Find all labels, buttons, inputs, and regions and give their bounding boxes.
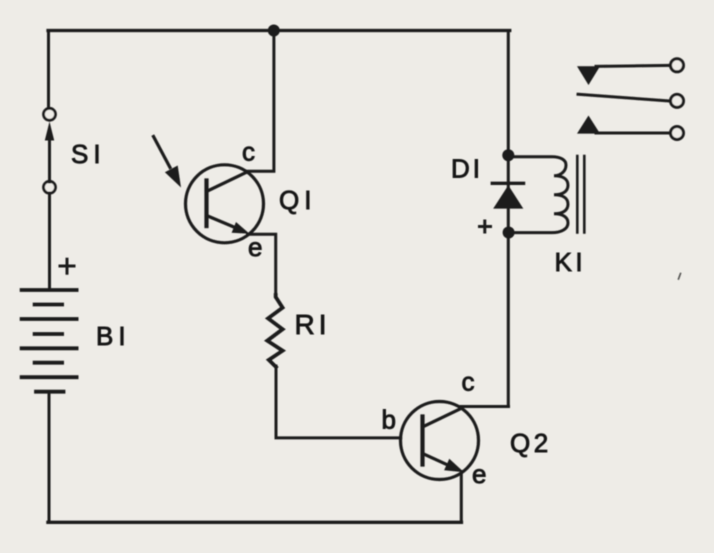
wire Q2 emitter down to ground rail xyxy=(460,472,463,523)
wire right vertical (top rail down to Q2 collector) xyxy=(507,31,510,407)
switch S1 xyxy=(44,108,56,193)
svg-text:KI: KI xyxy=(555,247,587,277)
stray scan mark xyxy=(679,274,681,280)
svg-text:c: c xyxy=(462,367,475,397)
wire bottom horizontal rail xyxy=(48,521,461,524)
svg-text:SI: SI xyxy=(71,139,106,169)
node D1/coil bottom junction xyxy=(503,227,515,239)
resistor R1 xyxy=(267,295,282,367)
svg-text:c: c xyxy=(242,137,255,167)
wire Q2 collector to relay branch xyxy=(461,405,509,408)
svg-text:QI: QI xyxy=(279,185,316,215)
svg-text:RI: RI xyxy=(295,309,331,340)
plus label (D1 anode) xyxy=(480,221,491,232)
node D1/coil top junction xyxy=(502,149,514,161)
node junction top rail xyxy=(268,25,280,37)
transistor Q1 (photo) xyxy=(186,165,264,243)
relay contact armature (middle) xyxy=(578,94,684,107)
diode D1 xyxy=(492,183,523,208)
relay contact NO (bottom) xyxy=(577,116,684,140)
wire top horizontal rail xyxy=(48,29,510,32)
relay contact NC (top) xyxy=(577,59,684,85)
svg-text:Q2: Q2 xyxy=(510,428,552,458)
svg-text:e: e xyxy=(472,459,486,489)
wire left vertical (top rail to S1) xyxy=(47,31,50,109)
wire battery bottom to ground rail xyxy=(48,393,51,522)
transistor Q2 xyxy=(401,402,479,480)
svg-text:b: b xyxy=(382,405,396,435)
battery B1 plus sign xyxy=(60,259,74,273)
svg-text:BI: BI xyxy=(96,321,131,351)
svg-text:DI: DI xyxy=(451,154,483,184)
wire S1 to battery top xyxy=(48,193,51,289)
battery B1 xyxy=(22,290,77,392)
light arrow into Q1 xyxy=(154,137,182,188)
wire R1 bottom to Q2 base xyxy=(276,366,401,438)
relay coil K1 xyxy=(508,157,568,233)
svg-text:e: e xyxy=(248,232,262,262)
wire Q1 collector to top junction xyxy=(247,31,274,172)
relay K1 core lines xyxy=(577,156,584,232)
wire Q1 emitter down to R1 xyxy=(248,234,276,297)
